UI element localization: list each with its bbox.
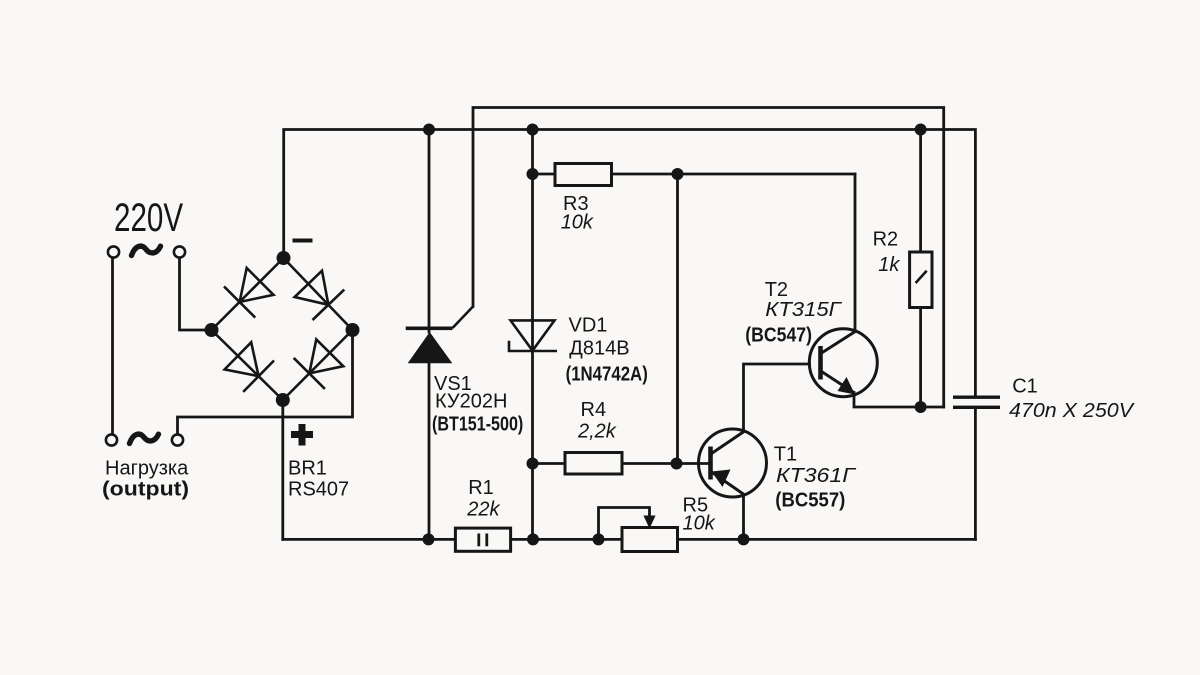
node dot R3 right [672,168,684,180]
node bridge bottom [276,393,290,407]
svg-text:10k: 10k [561,211,594,233]
wire bottom rail y=539.4 [283,538,455,541]
bridge BR1 diamond [212,258,353,400]
svg-text:T1: T1 [774,443,797,465]
svg-text:Д814В: Д814В [569,338,629,360]
wire bridge left node to top-right terminal [180,258,212,330]
wire VS1 cathode to bottom [428,363,431,539]
svg-text:VD1: VD1 [569,315,608,337]
svg-text:2,2k: 2,2k [577,420,617,442]
svg-text:1k: 1k [878,254,900,276]
wire VD1 column x=532.5 [531,130,534,540]
AC tilde bottom [130,434,159,443]
transistor T2 [809,329,877,397]
bridge diode top-left [224,268,274,318]
terminal circle top-right [174,246,185,257]
svg-text:BR1: BR1 [288,458,327,480]
terminal circle top-left [108,246,119,257]
svg-text:R4: R4 [581,399,607,421]
VS1 cathode bar [406,327,453,331]
resistor R1 [455,528,510,551]
wire top rail (gate rail) y=107.5 [473,108,944,408]
svg-text:(1N4742A): (1N4742A) [566,364,648,386]
node dot R2 bottom [915,401,927,413]
wire bridge plus column [281,400,284,539]
plus sign bridge [291,424,313,446]
wire R5 wiper return [599,508,650,540]
node dot (429,129.5) [423,124,435,136]
terminal circle bottom-right [172,434,183,445]
potentiometer R5 [622,516,678,552]
node dot (920.6,129.5) [915,124,927,136]
bridge diode bottom-right [294,339,344,389]
resistor R4 [565,453,622,475]
wire R3 row y=174 [533,173,556,176]
svg-text:R1: R1 [468,477,494,499]
bridge diode top-right [295,271,345,320]
wire T1 base lead [677,462,711,465]
node dot bottom wiper [593,533,605,545]
wire bridge right node to bottom-right terminal [178,330,353,435]
capacitor C1 [953,396,1000,410]
svg-text:220V: 220V [114,196,184,240]
node dot (532.5,129.5) [527,124,539,136]
svg-text:R2: R2 [873,229,899,251]
resistor R2 [910,252,932,308]
bridge diode bottom-left [225,342,274,392]
transistor T1 [699,429,767,497]
svg-text:КТ315Г: КТ315Г [765,299,843,321]
thyristor VS1 [406,307,473,364]
node dot R3 left [527,168,539,180]
minus sign bridge [293,239,313,243]
svg-text:10k: 10k [683,512,716,534]
svg-text:(BC547): (BC547) [745,325,812,347]
svg-text:22k: 22k [466,498,500,520]
wire T1 collector to T2 base [744,364,810,432]
node dot R4 left [527,458,539,470]
zener VD1 [509,320,557,351]
svg-text:C1: C1 [1012,375,1038,397]
resistor R3 [555,164,612,186]
wire T2 collector drop x=855 [854,174,857,330]
wire R2 leads x=920.6 [919,130,922,253]
svg-text:(output): (output) [102,479,189,501]
node bridge top [277,251,291,265]
wire T1 emitter drop [742,495,745,540]
wire left terminal column [111,258,114,435]
VS1 triangle [408,332,453,363]
wire T2 emitter row y=407 [854,393,944,408]
svg-text:470n X 250V: 470n X 250V [1009,400,1135,422]
node dot bottom VD1 [527,533,539,545]
node dot R4 right [671,458,683,470]
node dot bottom VS1 [423,533,435,545]
svg-text:(BT151-500): (BT151-500) [432,413,523,435]
node bridge right [346,323,360,337]
svg-text:Нагрузка: Нагрузка [105,457,189,479]
wire C1 bottom lead [974,409,977,540]
svg-text:КУ202Н: КУ202Н [435,390,507,412]
wire second rail y=129.5 [284,130,976,396]
svg-text:КТ361Г: КТ361Г [776,465,857,487]
svg-text:(BC557): (BC557) [775,489,845,511]
svg-text:T2: T2 [765,279,788,301]
terminal circle bottom-left [106,434,117,445]
node dot bottom T1 [738,533,750,545]
svg-text:RS407: RS407 [288,479,349,501]
node bridge left [205,323,219,337]
AC tilde top [132,246,161,255]
VS1 gate wire [453,307,474,329]
wire R3/R4 link column x=677.5 [676,174,679,464]
wire VS1 anode column x=429 [428,130,431,333]
wire R4 row y=463.5 [533,462,566,465]
